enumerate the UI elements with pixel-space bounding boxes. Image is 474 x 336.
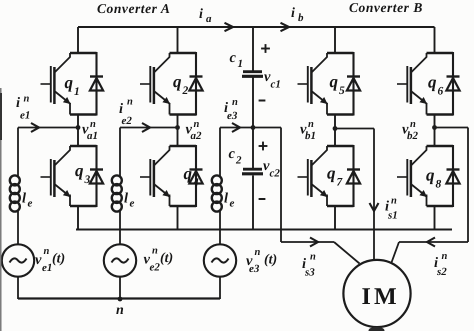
svg-text:I: I [362, 284, 371, 310]
svg-text:(t): (t) [264, 253, 277, 268]
svg-text:l: l [22, 191, 26, 207]
svg-text:5: 5 [339, 85, 345, 97]
svg-text:s2: s2 [436, 266, 447, 278]
svg-text:1: 1 [74, 86, 80, 98]
svg-text:e: e [130, 198, 135, 210]
svg-text:e: e [28, 198, 33, 210]
svg-text:n: n [194, 119, 200, 130]
svg-text:n: n [152, 246, 158, 257]
svg-text:q: q [330, 72, 339, 91]
svg-text:2: 2 [182, 85, 189, 97]
svg-text:n: n [442, 251, 448, 262]
svg-text:n: n [410, 119, 416, 130]
svg-text:n: n [127, 97, 133, 108]
svg-text:n: n [308, 119, 314, 130]
svg-text:1: 1 [238, 58, 244, 70]
svg-text:n: n [116, 303, 124, 318]
svg-text:l: l [124, 191, 128, 207]
svg-text:q: q [184, 164, 193, 183]
svg-text:i: i [291, 6, 295, 21]
svg-text:e3: e3 [249, 263, 260, 275]
svg-text:n: n [90, 119, 96, 130]
svg-text:e: e [230, 198, 235, 210]
svg-text:q: q [428, 73, 437, 92]
svg-text:n: n [391, 196, 397, 207]
svg-text:e1: e1 [20, 110, 30, 122]
svg-text:8: 8 [436, 179, 442, 191]
svg-text:n: n [255, 247, 261, 258]
svg-text:a: a [206, 13, 212, 25]
svg-text:q: q [327, 164, 336, 183]
svg-text:v: v [35, 252, 42, 268]
svg-text:e1: e1 [42, 262, 52, 274]
svg-text:q: q [173, 72, 182, 91]
svg-text:c: c [229, 146, 236, 162]
svg-text:q: q [65, 73, 74, 92]
svg-text:3: 3 [84, 174, 91, 186]
svg-text:c: c [230, 50, 237, 66]
svg-text:a1: a1 [87, 130, 98, 142]
svg-text:4: 4 [192, 177, 199, 189]
svg-text:n: n [44, 246, 50, 257]
svg-text:b1: b1 [305, 130, 316, 142]
svg-text:6: 6 [438, 86, 444, 98]
svg-text:b2: b2 [407, 130, 419, 142]
svg-text:Converter A: Converter A [97, 1, 170, 16]
svg-text:Converter B: Converter B [349, 0, 423, 15]
svg-text:e3: e3 [227, 110, 238, 122]
svg-text:e2: e2 [122, 115, 133, 127]
svg-text:a2: a2 [191, 130, 203, 142]
svg-text:2: 2 [235, 155, 242, 167]
svg-text:n: n [310, 252, 316, 263]
svg-text:q: q [75, 161, 84, 180]
svg-text:e2: e2 [150, 262, 161, 274]
svg-text:l: l [224, 191, 228, 207]
svg-text:b: b [298, 12, 304, 24]
svg-text:M: M [374, 284, 397, 310]
svg-text:s1: s1 [387, 210, 398, 222]
svg-text:c2: c2 [270, 168, 281, 180]
svg-text:n: n [24, 94, 30, 105]
svg-text:i: i [199, 7, 203, 22]
svg-text:c1: c1 [271, 79, 281, 91]
svg-text:q: q [426, 166, 435, 185]
svg-text:(t): (t) [52, 252, 65, 267]
svg-text:s3: s3 [304, 267, 315, 279]
svg-text:(t): (t) [160, 251, 173, 266]
svg-text:n: n [232, 97, 238, 108]
